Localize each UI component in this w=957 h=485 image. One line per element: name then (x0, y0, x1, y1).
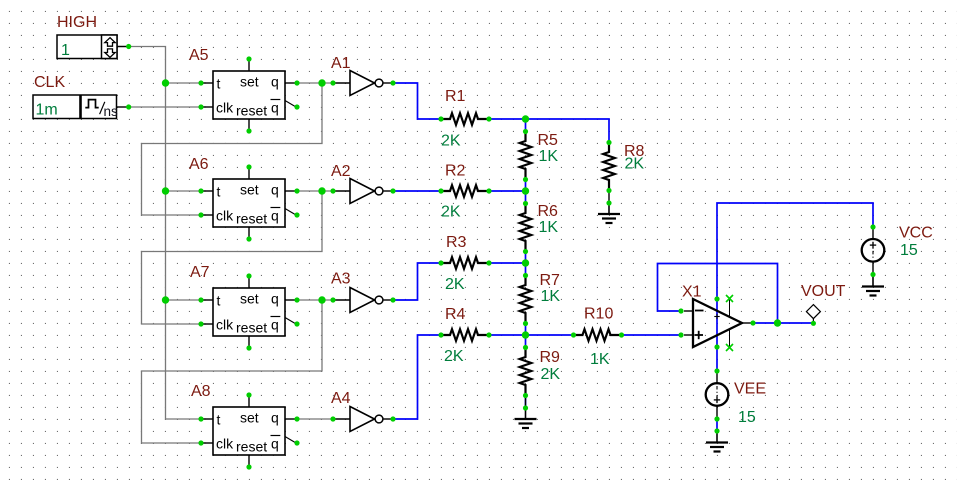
svg-text:reset: reset (236, 103, 267, 119)
svg-text:A2: A2 (331, 163, 351, 180)
svg-text:1K: 1K (590, 351, 610, 368)
svg-text:VEE: VEE (734, 381, 766, 398)
svg-text:R3: R3 (446, 234, 467, 251)
svg-text:2K: 2K (444, 348, 464, 365)
svg-text:t: t (217, 412, 221, 428)
svg-text:reset: reset (236, 211, 267, 227)
svg-text:2K: 2K (625, 156, 645, 173)
svg-text:2K: 2K (441, 133, 461, 150)
svg-text:q: q (271, 409, 279, 425)
svg-text:clk: clk (216, 316, 234, 332)
svg-text:1K: 1K (539, 148, 559, 165)
svg-text:clk: clk (216, 435, 234, 451)
svg-text:set: set (240, 291, 259, 307)
svg-text:HIGH: HIGH (57, 14, 97, 31)
svg-text:R6: R6 (538, 203, 559, 220)
svg-text:set: set (240, 74, 259, 90)
svg-text:X1: X1 (682, 284, 702, 301)
svg-text:A7: A7 (190, 264, 210, 281)
svg-text:1: 1 (61, 42, 70, 59)
svg-text:A1: A1 (331, 55, 351, 72)
svg-text:15: 15 (738, 409, 756, 426)
svg-text:A3: A3 (331, 271, 351, 288)
svg-text:R9: R9 (540, 349, 561, 366)
svg-text:q: q (271, 181, 279, 197)
svg-text:clk: clk (216, 207, 234, 223)
svg-text:q: q (271, 207, 279, 223)
svg-text:A8: A8 (191, 383, 211, 400)
svg-text:2K: 2K (541, 366, 561, 383)
svg-text:A6: A6 (189, 156, 209, 173)
svg-text:A5: A5 (189, 47, 209, 64)
svg-text:1K: 1K (541, 288, 561, 305)
svg-text:q: q (271, 435, 279, 451)
svg-text:reset: reset (236, 320, 267, 336)
svg-text:15: 15 (900, 242, 918, 259)
svg-text:2K: 2K (441, 204, 461, 221)
svg-text:CLK: CLK (34, 74, 65, 91)
svg-text:1m: 1m (36, 102, 58, 119)
svg-text:q: q (271, 316, 279, 332)
svg-text:VCC: VCC (899, 225, 933, 242)
svg-text:VOUT: VOUT (801, 283, 846, 300)
svg-text:reset: reset (236, 439, 267, 455)
svg-text:1K: 1K (539, 219, 559, 236)
svg-text:t: t (217, 76, 221, 92)
svg-text:R10: R10 (584, 305, 613, 322)
svg-text:R2: R2 (445, 163, 466, 180)
svg-text:clk: clk (216, 99, 234, 115)
svg-text:R5: R5 (538, 132, 559, 149)
svg-text:q: q (271, 99, 279, 115)
svg-text:set: set (240, 410, 259, 426)
svg-text:t: t (217, 184, 221, 200)
svg-text:t: t (217, 293, 221, 309)
svg-text:q: q (271, 73, 279, 89)
svg-text:2K: 2K (445, 276, 465, 293)
svg-text:ns: ns (104, 104, 119, 119)
svg-text:A4: A4 (331, 390, 351, 407)
svg-text:set: set (240, 182, 259, 198)
svg-text:R7: R7 (540, 272, 561, 289)
svg-text:R4: R4 (445, 306, 466, 323)
svg-text:q: q (271, 290, 279, 306)
svg-text:R1: R1 (445, 88, 466, 105)
